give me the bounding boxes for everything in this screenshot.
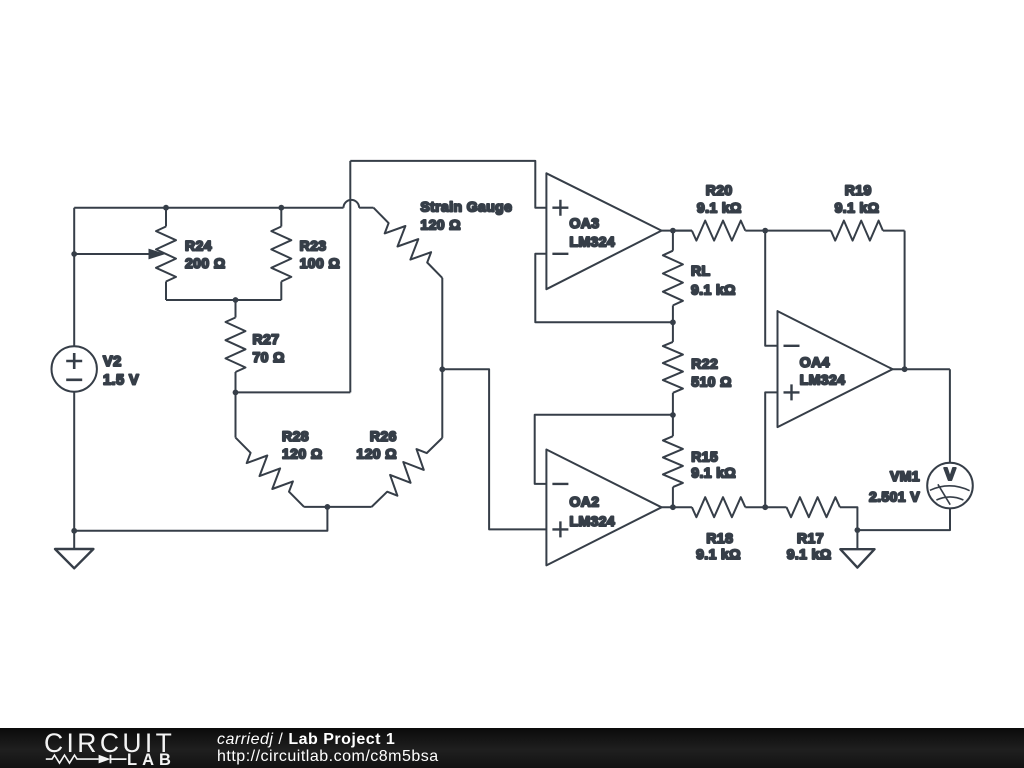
- wire OA4 output to VM1: [949, 369, 951, 463]
- svg-text:R19: R19: [845, 182, 872, 198]
- wire OA2 output: [662, 506, 692, 508]
- wire hop over vertical net at x=350: [344, 200, 360, 208]
- svg-text:V2: V2: [103, 354, 122, 370]
- node R27 bottom junction: [233, 390, 239, 396]
- node OA2 output junction: [670, 504, 676, 510]
- svg-text:2.501 V: 2.501 V: [869, 488, 920, 504]
- resistor R24 (potentiometer 200 ohm): [165, 208, 167, 227]
- svg-text:100 Ω: 100 Ω: [300, 255, 340, 271]
- svg-text:R18: R18: [706, 530, 733, 546]
- wire R23 top to crossover hop: [281, 207, 343, 209]
- resistor R27 70 ohm: [235, 300, 237, 318]
- svg-text:R20: R20: [706, 182, 733, 198]
- wire R19 to OA4 output: [904, 231, 906, 370]
- node wiper junction on left rail: [71, 251, 77, 257]
- wire bridge node down to R26: [441, 369, 443, 438]
- wire top-left horizontal net from V2 to R24/R23 tops: [74, 207, 281, 209]
- node ground bus junction: [71, 528, 77, 534]
- wire V2 bottom to ground node: [73, 392, 75, 531]
- wire top bridge to OA3 plus input: [350, 161, 546, 208]
- svg-text:R15: R15: [691, 448, 718, 464]
- wire OA4 output: [893, 368, 950, 370]
- resistor R19 9.1 kohm: [765, 230, 831, 232]
- svg-text:LAB: LAB: [127, 751, 176, 768]
- svg-text:9.1 kΩ: 9.1 kΩ: [697, 199, 742, 215]
- svg-text:OA4: OA4: [800, 354, 830, 370]
- node R28/R26 bottom junction: [325, 504, 331, 510]
- node OA2 feedback junction: [670, 412, 676, 418]
- svg-text:9.1 kΩ: 9.1 kΩ: [835, 199, 880, 215]
- wire hop exit to strain gauge: [359, 207, 373, 209]
- svg-text:9.1 kΩ: 9.1 kΩ: [691, 281, 736, 297]
- resistor R23 100 ohm: [280, 208, 282, 227]
- svg-text:OA3: OA3: [570, 215, 600, 231]
- svg-text:R26: R26: [370, 428, 397, 444]
- svg-text:R28: R28: [282, 428, 309, 444]
- resistor R26 120 ohm (diagonal): [372, 438, 443, 507]
- svg-text:9.1 kΩ: 9.1 kΩ: [696, 546, 741, 562]
- wire vertical riser x=350: [349, 161, 351, 393]
- wire ground node to VM1 bottom: [857, 508, 950, 530]
- node R27 top junction: [233, 297, 239, 303]
- node R20/R19 junction: [762, 228, 768, 234]
- svg-text:LM324: LM324: [570, 513, 616, 529]
- wire potentiometer wiper from left rail: [74, 253, 150, 255]
- svg-text:R23: R23: [300, 237, 327, 253]
- wire R28 bottom lead: [304, 506, 327, 508]
- voltage source V2: [51, 346, 96, 391]
- wire OA3 output: [662, 230, 693, 232]
- wire OA2 minus feedback: [535, 415, 673, 484]
- node R18/R17 junction: [762, 504, 768, 510]
- wire ground bus bottom: [74, 507, 327, 531]
- svg-text:Strain Gauge: Strain Gauge: [420, 199, 512, 215]
- wire OA4 plus input riser: [765, 392, 777, 507]
- wire OA3 minus feedback: [535, 254, 673, 322]
- resistor R18 9.1 kohm: [692, 497, 745, 517]
- wire R28/R26 junction to R26: [327, 506, 371, 508]
- node R23 top junction: [278, 205, 284, 211]
- svg-text:V: V: [944, 464, 956, 484]
- op-amp OA2: [546, 450, 661, 566]
- svg-text:R22: R22: [691, 356, 718, 372]
- svg-text:120 Ω: 120 Ω: [282, 446, 322, 462]
- resistor R22 510 ohm: [672, 322, 674, 342]
- svg-text:OA2: OA2: [570, 493, 600, 509]
- node R24 top junction: [163, 205, 169, 211]
- node ground 2 junction: [855, 527, 861, 533]
- resistor R15 9.1 kohm: [672, 415, 674, 436]
- svg-text:R17: R17: [797, 530, 824, 546]
- resistor Strain Gauge 120 ohm (diagonal): [374, 208, 443, 278]
- svg-text:510 Ω: 510 Ω: [691, 373, 731, 389]
- svg-text:LM324: LM324: [800, 372, 846, 388]
- op-amp OA4: [778, 311, 893, 427]
- resistor R17 9.1 kohm: [765, 506, 786, 508]
- svg-text:R24: R24: [185, 237, 212, 253]
- potentiometer R24 wiper arrow: [149, 249, 166, 260]
- node bridge right mid junction: [439, 366, 445, 372]
- wire R24 bottom to R23 bottom: [166, 299, 281, 301]
- svg-text:R27: R27: [253, 331, 280, 347]
- node OA4 output junction: [902, 366, 908, 372]
- svg-text:LM324: LM324: [570, 233, 616, 249]
- voltmeter VM1: [927, 463, 973, 509]
- svg-text:70 Ω: 70 Ω: [253, 349, 285, 365]
- wire left rail V2 top: [73, 208, 75, 347]
- svg-text:VM1: VM1: [890, 468, 920, 484]
- node OA3 output junction: [670, 228, 676, 234]
- resistor R28 120 ohm (diagonal): [235, 392, 237, 437]
- wire R20/R19 node to OA4 minus input: [765, 231, 777, 346]
- ground at V2: [73, 531, 75, 549]
- wire bridge node to OA2 plus riser: [442, 369, 546, 529]
- resistor R20 9.1 kohm: [673, 230, 692, 232]
- svg-text:120 Ω: 120 Ω: [356, 446, 396, 462]
- op-amp OA3: [546, 173, 661, 289]
- wire strain gauge bottom to bridge node: [441, 278, 443, 369]
- svg-text:200 Ω: 200 Ω: [185, 255, 225, 271]
- svg-text:RL: RL: [691, 262, 711, 278]
- wire R27 bottom to vertical riser x=350: [236, 391, 351, 393]
- CircuitLab logo: [42, 728, 182, 768]
- svg-text:120 Ω: 120 Ω: [420, 216, 460, 232]
- svg-text:9.1 kΩ: 9.1 kΩ: [691, 465, 736, 481]
- svg-text:9.1 kΩ: 9.1 kΩ: [787, 546, 832, 562]
- node OA3 feedback junction: [670, 319, 676, 325]
- ground at R17/VM1: [856, 530, 858, 549]
- resistor RL 9.1 kohm: [672, 231, 674, 251]
- svg-text:1.5 V: 1.5 V: [103, 373, 139, 389]
